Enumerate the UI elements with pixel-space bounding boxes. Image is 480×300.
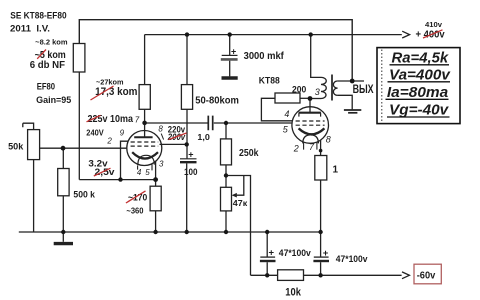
svg-text:10k: 10k xyxy=(285,286,301,298)
svg-text:200: 200 xyxy=(292,85,306,95)
svg-text:100: 100 xyxy=(184,167,198,178)
svg-text:+: + xyxy=(188,149,193,159)
svg-text:50-80kom: 50-80kom xyxy=(195,95,239,107)
svg-text:2011 I.V.: 2011 I.V. xyxy=(10,24,50,35)
svg-text:+: + xyxy=(231,47,236,57)
svg-text:4: 4 xyxy=(284,109,289,119)
svg-text:47к: 47к xyxy=(233,199,249,208)
svg-text:1: 1 xyxy=(333,164,339,175)
svg-text:Ra=4,5k: Ra=4,5k xyxy=(392,51,450,67)
svg-text:410v: 410v xyxy=(425,20,443,29)
svg-text:3000 mkf: 3000 mkf xyxy=(244,51,285,62)
svg-text:2,5v: 2,5v xyxy=(95,167,116,178)
svg-text:9: 9 xyxy=(120,129,125,138)
svg-text:Vg=-40v: Vg=-40v xyxy=(389,103,449,119)
svg-text:3: 3 xyxy=(315,87,320,97)
svg-text:+: + xyxy=(323,248,329,259)
svg-text:2: 2 xyxy=(106,136,112,145)
svg-text:500 k: 500 k xyxy=(73,189,95,200)
svg-text:~170: ~170 xyxy=(128,192,147,203)
svg-text:-60v: -60v xyxy=(417,271,436,282)
svg-text:4: 4 xyxy=(137,168,142,177)
svg-text:SE KT88-EF80: SE KT88-EF80 xyxy=(10,11,66,22)
svg-text:~360: ~360 xyxy=(126,206,143,216)
svg-text:225v 10ma: 225v 10ma xyxy=(88,114,134,125)
svg-text:8: 8 xyxy=(158,124,163,133)
svg-text:8: 8 xyxy=(326,134,331,144)
svg-text:240V: 240V xyxy=(86,128,104,138)
svg-text:250k: 250k xyxy=(239,148,259,159)
svg-text:KT88: KT88 xyxy=(259,76,280,87)
svg-text:3: 3 xyxy=(159,159,164,168)
svg-text:17,3 kom: 17,3 kom xyxy=(95,86,137,98)
svg-text:1,0: 1,0 xyxy=(197,132,210,142)
svg-text:47*100v: 47*100v xyxy=(336,254,368,264)
svg-text:Gain=95: Gain=95 xyxy=(36,95,72,106)
svg-text:5: 5 xyxy=(145,168,150,177)
svg-text:ВЫХ: ВЫХ xyxy=(353,82,374,96)
svg-text:EF80: EF80 xyxy=(37,81,55,92)
svg-text:~8.2 kom: ~8.2 kom xyxy=(35,38,68,47)
svg-text:50k: 50k xyxy=(8,141,24,152)
svg-text:+: + xyxy=(269,248,275,259)
svg-text:47*100v: 47*100v xyxy=(279,248,311,258)
svg-text:Ia=80ma: Ia=80ma xyxy=(387,85,448,101)
svg-text:6 db NF: 6 db NF xyxy=(30,59,66,71)
svg-text:7: 7 xyxy=(135,115,140,124)
svg-text:Va=400v: Va=400v xyxy=(389,68,451,84)
svg-text:2: 2 xyxy=(293,144,299,154)
